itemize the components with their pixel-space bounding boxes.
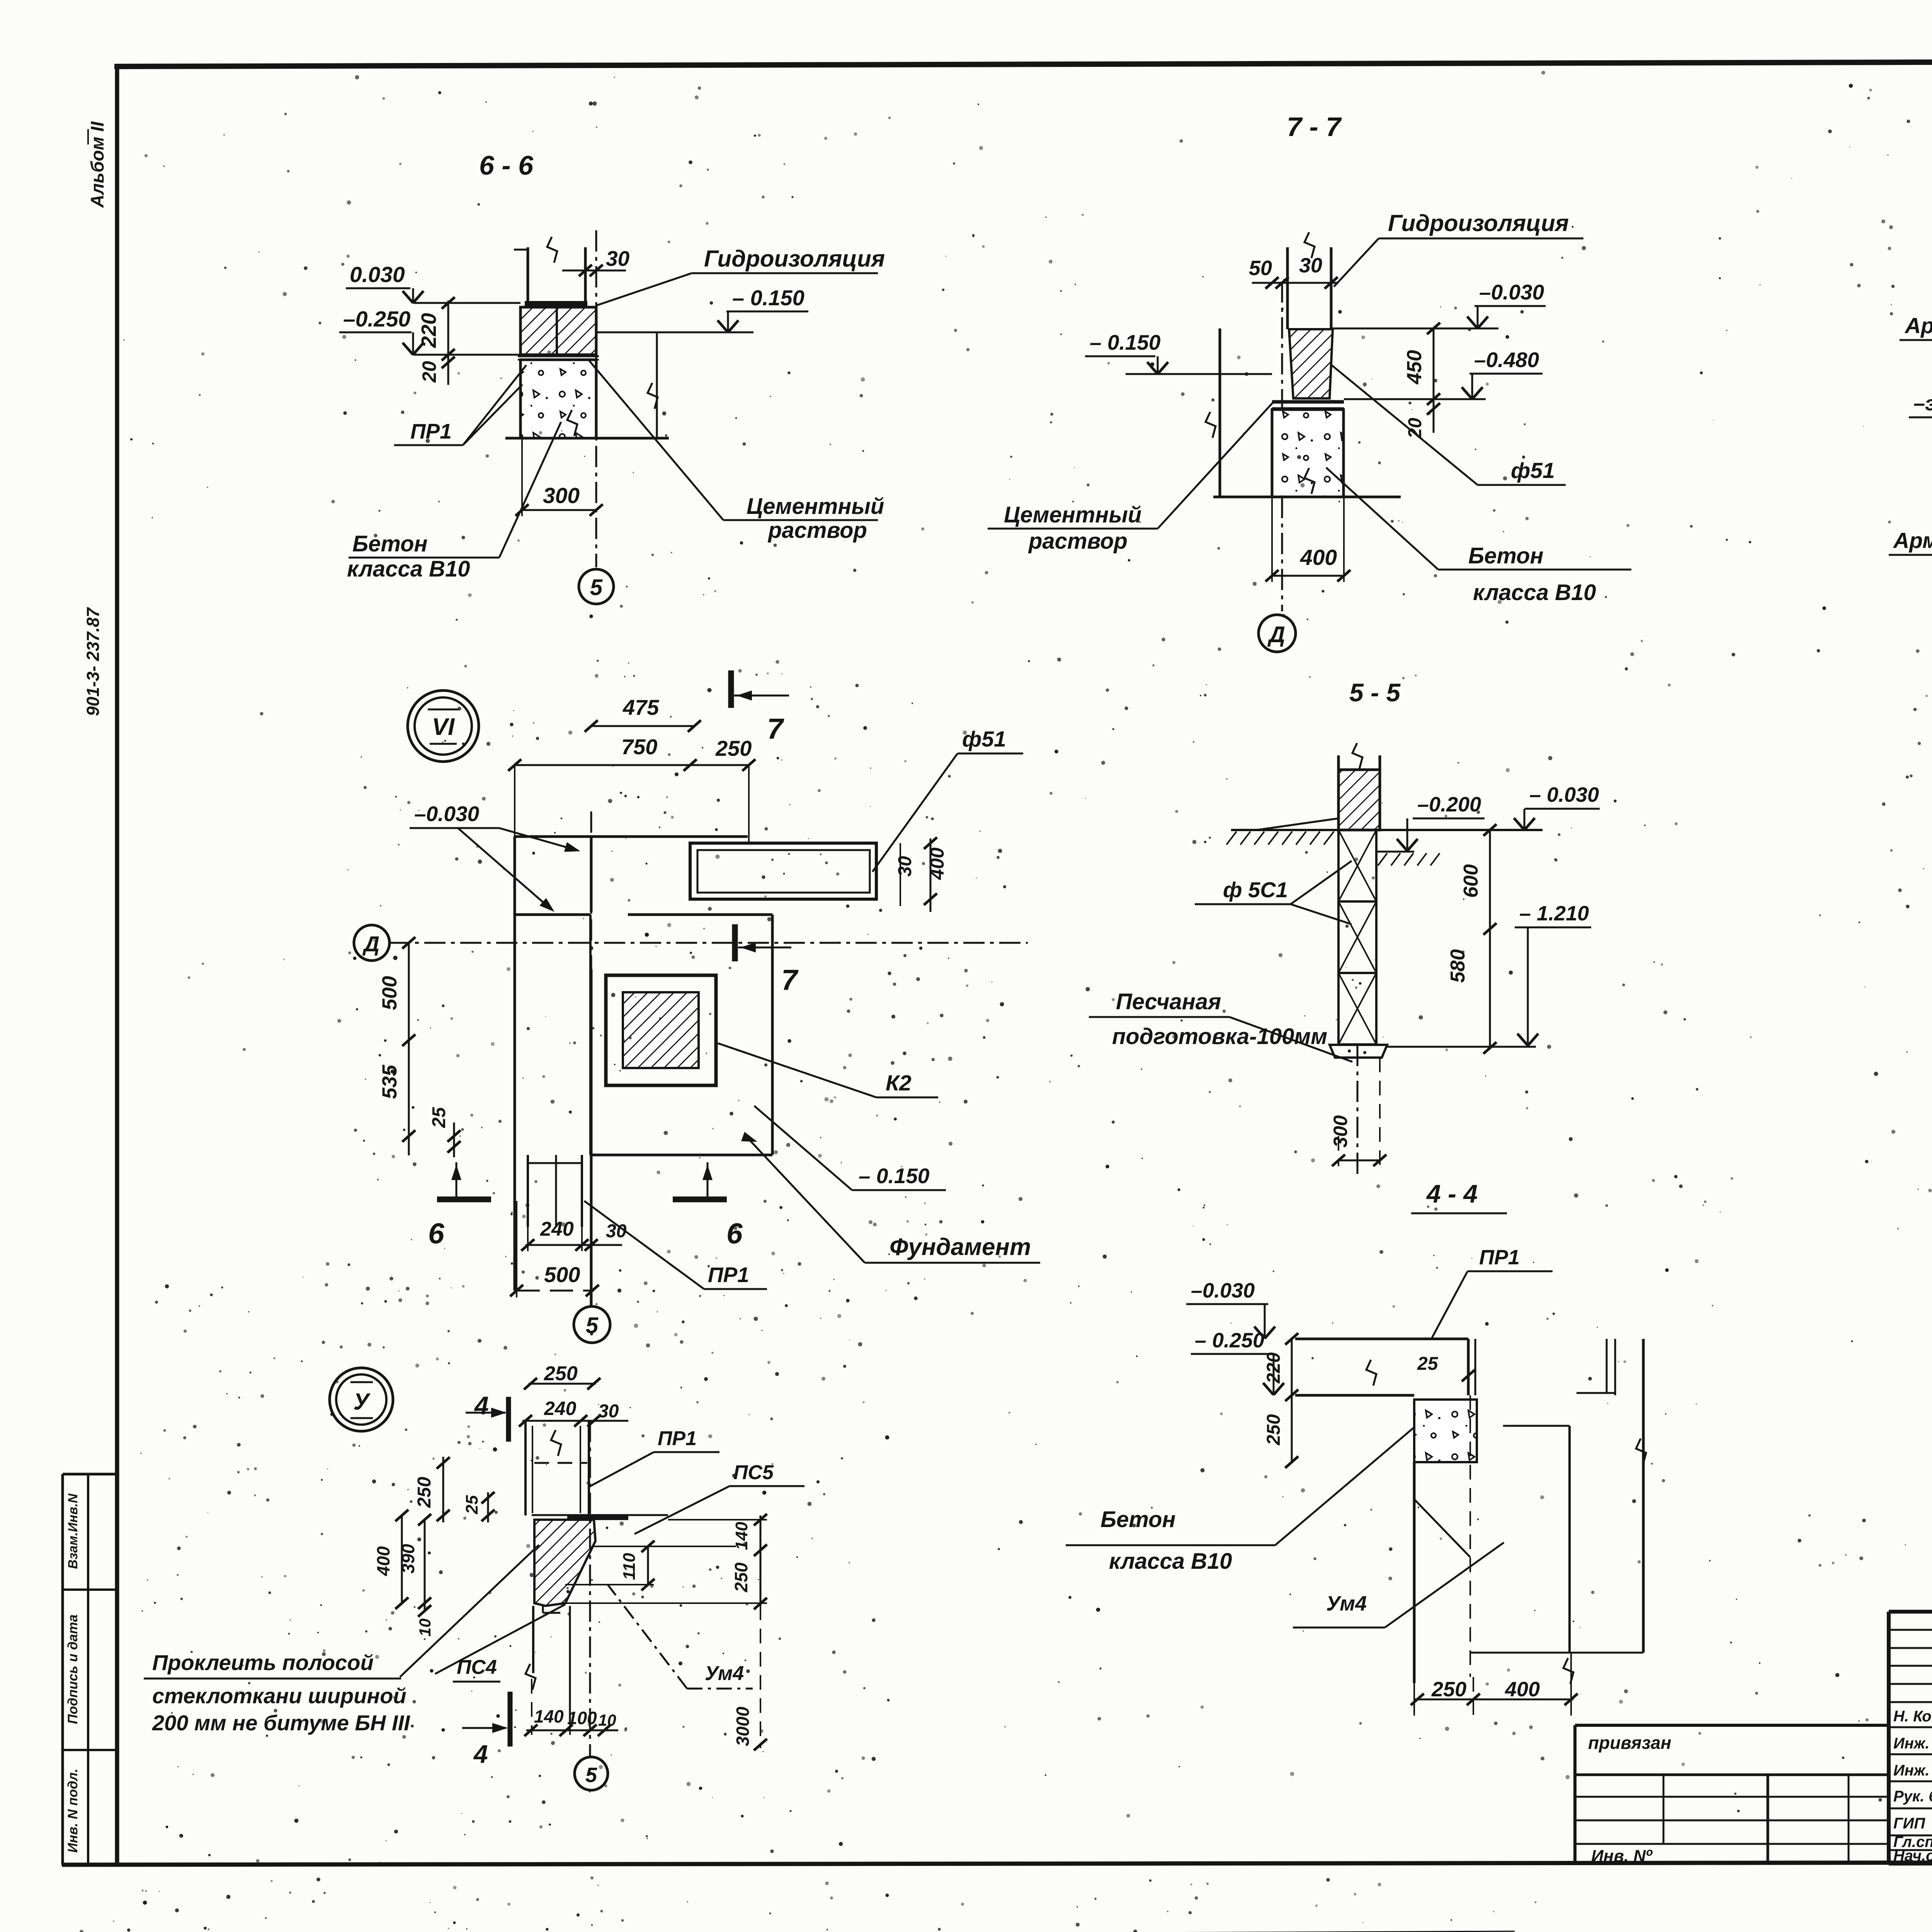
У dim 110 upper (565, 1541, 655, 1590)
6-6 label Гидроизоляция (597, 246, 885, 305)
5-5 ground line (1231, 818, 1543, 830)
4-4 lower wall (1414, 1395, 1573, 1684)
svg-text:475: 475 (622, 695, 659, 719)
У label ПС5 (634, 1461, 804, 1534)
svg-text:–0.200: –0.200 (1417, 793, 1481, 816)
svg-text:–0.250: –0.250 (343, 307, 411, 332)
6-6 concrete block (520, 360, 596, 438)
svg-text:раствор: раствор (767, 518, 867, 543)
7-7 mortar joint (1272, 402, 1344, 408)
svg-text:901-3- 237.87: 901-3- 237.87 (83, 607, 103, 716)
svg-text:300: 300 (1330, 1115, 1351, 1148)
svg-text:400: 400 (1300, 545, 1337, 570)
svg-text:400: 400 (1505, 1678, 1540, 1701)
svg-text:110: 110 (620, 1553, 639, 1580)
7-7 label ФБ1 (1331, 365, 1566, 485)
VI section mark 7 top (731, 670, 789, 745)
VI label Фундамент (747, 1137, 1040, 1263)
У section mark 4 bottom (462, 1692, 510, 1768)
svg-text:ф 5С1: ф 5С1 (1223, 878, 1288, 902)
svg-text:5 - 5: 5 - 5 (1349, 678, 1401, 707)
svg-text:класса В10: класса В10 (347, 556, 470, 582)
VI section mark 6 right (673, 1162, 743, 1250)
У dashed ПР1 line (534, 1462, 587, 1464)
У note Проклеить (144, 1650, 410, 1735)
6-6 level line -0.150 right (596, 332, 753, 438)
svg-text:250: 250 (1264, 1414, 1284, 1446)
svg-text:стеклоткани шириной: стеклоткани шириной (152, 1684, 406, 1708)
У dim 250 25 left (414, 1457, 534, 1522)
svg-text:ПР1: ПР1 (658, 1427, 697, 1450)
svg-text:–э.200: –э.200 (1913, 392, 1932, 415)
svg-text:50: 50 (1249, 257, 1272, 280)
VI label -0.150 (754, 1106, 946, 1190)
svg-text:4: 4 (473, 1740, 488, 1768)
svg-text:Альбом II: Альбом II (87, 121, 107, 208)
svg-text:Арматура колонны: Арматура колонны (1904, 313, 1932, 338)
svg-text:535: 535 (378, 1064, 401, 1099)
svg-text:250: 250 (414, 1477, 435, 1508)
У long ext lines (565, 1546, 767, 1603)
5-5 ledge -0.200 (1376, 830, 1414, 852)
svg-text:– 1.210: – 1.210 (1519, 902, 1589, 925)
svg-text:6: 6 (726, 1217, 743, 1250)
У axis bubble 5 bottom (575, 1757, 608, 1790)
svg-text:7: 7 (781, 964, 799, 996)
VI section mark 6 left (428, 1162, 491, 1250)
6-6 dim 220 / 20 (417, 297, 520, 385)
5-5 level -1.210 (1387, 902, 1591, 1047)
7-7 ground line (1213, 496, 1401, 498)
svg-text:6 - 6: 6 - 6 (479, 150, 534, 180)
svg-text:200 мм не битуме БН III: 200 мм не битуме БН III (152, 1711, 410, 1735)
svg-text:ПР1: ПР1 (1479, 1246, 1520, 1269)
VI axis 5 dash-dot vertical (590, 811, 592, 1305)
svg-text:Нач.отд.: Нач.отд. (1893, 1847, 1932, 1864)
7-7 level -0.480 (1344, 348, 1543, 399)
VI dim 750 250 (508, 735, 755, 843)
svg-text:25: 25 (1417, 1354, 1439, 1374)
svg-text:30: 30 (895, 856, 915, 877)
svg-text:4: 4 (474, 1391, 489, 1420)
svg-text:30: 30 (606, 247, 630, 270)
svg-text:3000: 3000 (733, 1706, 753, 1746)
VI label К2 (718, 1043, 938, 1097)
6-6 masonry block (520, 307, 596, 355)
svg-text:30: 30 (1299, 254, 1322, 277)
title block signature grid (1889, 1612, 1932, 1863)
7-7 dim 450 20 (1344, 323, 1440, 439)
svg-text:400: 400 (926, 847, 948, 880)
VI dim 240 30 (521, 1218, 627, 1251)
svg-text:Инв. N подл.: Инв. N подл. (65, 1769, 80, 1853)
У right dim 140 250 3000 (668, 1514, 767, 1750)
6-6 waterproofing band (525, 301, 587, 307)
5-5 wall column hatched (1338, 743, 1380, 830)
svg-text:Песчаная: Песчаная (1116, 989, 1221, 1014)
svg-text:7: 7 (767, 713, 784, 745)
margin text Альбом II (87, 121, 107, 208)
У dim 240 30 (519, 1398, 628, 1427)
svg-text:500: 500 (544, 1262, 580, 1287)
node У bubble (330, 1368, 393, 1431)
svg-text:Цементный: Цементный (747, 494, 884, 519)
svg-text:220: 220 (417, 313, 440, 348)
У label ПС4 (400, 1545, 565, 1682)
svg-text:Цементный: Цементный (1004, 502, 1141, 527)
svg-text:Д: Д (1267, 622, 1285, 647)
svg-text:– 0.150: – 0.150 (859, 1164, 930, 1188)
VI wall strip vertical (515, 837, 591, 1305)
У wall top (526, 1421, 589, 1515)
svg-text:ПР1: ПР1 (708, 1263, 749, 1287)
У label ПР1 (589, 1427, 719, 1487)
svg-text:240: 240 (540, 1218, 574, 1240)
svg-text:– 0.030: – 0.030 (1529, 783, 1599, 806)
svg-text:Бетон: Бетон (352, 531, 428, 556)
5-5 label ФБС1 (1195, 861, 1352, 924)
4-4 level -0.250 (1191, 1329, 1284, 1395)
svg-text:Арматура днища: Арматура днища (1893, 528, 1932, 553)
svg-text:ф51: ф51 (962, 727, 1006, 752)
5-5 footing pad (1330, 1045, 1387, 1058)
6-6 ground line (505, 437, 669, 440)
svg-text:Д: Д (362, 932, 379, 956)
4-4 label ПР1 (1432, 1246, 1553, 1338)
VI section mark 7 mid (735, 924, 799, 996)
VI column K2 outer (606, 975, 716, 1085)
svg-text:К2: К2 (886, 1071, 912, 1095)
svg-text:Инв. Nº: Инв. Nº (1591, 1847, 1653, 1866)
6-6 level mark 0.030 (346, 262, 520, 303)
5-5 dim 300 (1330, 1058, 1386, 1166)
svg-text:0.030: 0.030 (350, 262, 405, 287)
svg-text:VI: VI (432, 714, 455, 740)
svg-text:250: 250 (731, 1562, 751, 1592)
svg-text:450: 450 (1403, 350, 1426, 384)
VI dim 30 400 right (876, 837, 958, 925)
svg-text:7 - 7: 7 - 7 (1287, 112, 1342, 142)
VI dim 475 (585, 695, 701, 732)
VI channel ПР1 below (528, 1155, 582, 1227)
svg-text:Инж.: Инж. (1893, 1735, 1930, 1752)
6-6 level label -0.150 (718, 286, 808, 332)
У dim 140 100 10 bottom (524, 1679, 618, 1736)
svg-text:140: 140 (732, 1522, 751, 1550)
svg-text:Рук. бр.: Рук. бр. (1893, 1788, 1932, 1805)
8-8 level -3.200 (1909, 392, 1932, 451)
У dim 400 390 10 left (373, 1510, 534, 1636)
svg-text:– 0.150: – 0.150 (732, 286, 804, 310)
5-5 soil hatch (1226, 832, 1440, 866)
4-4 label Бетон класса В10 (1066, 1427, 1415, 1574)
7-7 wall above (1287, 232, 1331, 329)
svg-text:30: 30 (606, 1221, 627, 1242)
У notch (543, 1606, 560, 1613)
4-4 level -0.030 (1186, 1279, 1275, 1338)
svg-text:Гидроизоляция: Гидроизоляция (704, 246, 885, 272)
VI dim 500 535 25 left (378, 937, 515, 1157)
svg-text:5: 5 (585, 1764, 597, 1787)
svg-text:ГИП: ГИП (1893, 1815, 1925, 1832)
svg-text:140: 140 (534, 1706, 564, 1726)
svg-text:У: У (354, 1389, 371, 1415)
VI label ФБ1 (872, 727, 1023, 872)
svg-text:10: 10 (416, 1619, 434, 1637)
У dim 250 top (524, 1362, 600, 1389)
У slab ПС5 (532, 1515, 668, 1518)
svg-text:Бетон: Бетон (1468, 543, 1544, 568)
5-5 dim 600 580 (1380, 824, 1497, 1054)
title block roles (1893, 1708, 1932, 1864)
svg-text:–0.030: –0.030 (1191, 1279, 1255, 1302)
6-6 dim 30 (562, 247, 630, 276)
svg-text:–0.030: –0.030 (414, 802, 480, 826)
svg-text:– 0.250: – 0.250 (1195, 1329, 1264, 1352)
svg-text:750: 750 (621, 735, 657, 759)
svg-text:ПР1: ПР1 (410, 419, 452, 443)
VI top wall band (515, 837, 772, 915)
svg-text:4 - 4: 4 - 4 (1426, 1179, 1478, 1208)
VI foundation square (590, 915, 772, 1155)
5-5 level -0.030 (1514, 783, 1600, 830)
7-7 dim 50 30 (1249, 254, 1338, 289)
svg-text:Н. Контр.: Н. Контр. (1893, 1708, 1932, 1725)
7-7 axis bubble Д (1259, 615, 1296, 652)
VI axis bubble 5 bottom (574, 1306, 610, 1343)
scan smudge bottom (37, 1931, 1515, 1932)
7-7 axis line Д (1281, 281, 1283, 611)
svg-text:30: 30 (598, 1401, 619, 1422)
svg-text:300: 300 (543, 483, 580, 508)
5-5 level -0.200 (1397, 793, 1485, 851)
svg-text:5: 5 (590, 575, 603, 600)
VI block ФБ1 plan (690, 843, 876, 899)
VI dim 500 bottom (510, 1201, 599, 1298)
svg-text:Гидроизоляция: Гидроизоляция (1388, 210, 1569, 236)
У hatched wedge Ум4 (534, 1520, 595, 1606)
4-4 concrete block В10 (1414, 1400, 1477, 1462)
VI arrow into foundation (719, 1132, 759, 1147)
7-7 left wall face (1206, 328, 1220, 497)
4-4 dim 25 (1417, 1354, 1484, 1381)
6-6 axis bubble 5 (579, 569, 614, 604)
svg-text:– 0.150: – 0.150 (1090, 330, 1161, 354)
title block outer (1889, 1612, 1932, 1864)
svg-text:привязан: привязан (1588, 1733, 1671, 1753)
8-8 label Арматура днища (1889, 528, 1932, 555)
svg-text:класса В10: класса В10 (1109, 1549, 1232, 1574)
svg-text:220: 220 (1264, 1352, 1284, 1384)
6-6 axis line 5 (595, 230, 597, 567)
У section mark 4 top (466, 1391, 509, 1442)
5-5 foundation blocks ФБС (1338, 830, 1376, 1044)
6-6 level mark -0.250 (339, 307, 520, 355)
svg-text:250: 250 (715, 736, 752, 760)
7-7 level -0.150 (1085, 330, 1272, 374)
У label Ум4 (607, 1584, 753, 1689)
svg-text:25: 25 (463, 1495, 481, 1514)
5-5 axis dash-dot (1357, 1045, 1359, 1178)
7-7 label Бетон класса В10 (1326, 468, 1631, 605)
svg-text:ПС5: ПС5 (733, 1461, 774, 1484)
4-4 dim 220 250 left (1264, 1333, 1298, 1468)
6-6 label ПР1 (394, 365, 526, 445)
svg-text:раствор: раствор (1028, 529, 1128, 554)
svg-text:250: 250 (1431, 1678, 1466, 1701)
node VI bubble (408, 690, 479, 762)
VI level -0.030 label (410, 802, 582, 916)
svg-text:20: 20 (418, 361, 440, 383)
7-7 masonry block (1289, 329, 1333, 398)
6-6 dim 300 (515, 438, 603, 516)
7-7 label Гидроизоляция (1334, 210, 1583, 287)
7-7 label Цементный раствор (988, 403, 1273, 554)
svg-text:25: 25 (429, 1107, 449, 1128)
7-7 foundation block (1272, 410, 1344, 497)
svg-text:580: 580 (1447, 949, 1469, 983)
title block left extension (1575, 1725, 1889, 1863)
svg-text:Фундамент: Фундамент (889, 1234, 1031, 1260)
4-4 inner diagonal (1414, 1499, 1470, 1557)
svg-text:–0.030: –0.030 (1479, 280, 1544, 304)
svg-text:390: 390 (398, 1544, 418, 1573)
svg-text:400: 400 (373, 1546, 393, 1576)
svg-text:240: 240 (544, 1398, 577, 1419)
svg-text:ф51: ф51 (1511, 458, 1555, 483)
6-6 label Бетон класса В10 (347, 422, 561, 582)
svg-text:–0.480: –0.480 (1474, 348, 1539, 372)
svg-text:6: 6 (428, 1217, 445, 1250)
VI label ПР1 (584, 1201, 767, 1289)
svg-text:класса В10: класса В10 (1473, 580, 1596, 605)
svg-text:Ум4: Ум4 (1326, 1592, 1367, 1615)
svg-text:Подпись и дата: Подпись и дата (65, 1614, 80, 1724)
4-4 dim 250 400 bottom (1411, 1653, 1578, 1716)
6-6 mortar layer (518, 356, 599, 360)
section 4-4 title (1411, 1179, 1507, 1213)
7-7 dim 400 (1265, 497, 1350, 582)
svg-text:Бетон: Бетон (1100, 1507, 1176, 1532)
svg-text:Инж.: Инж. (1893, 1762, 1930, 1779)
margin stamp table (63, 1474, 117, 1865)
section 5-5 title (1349, 678, 1401, 707)
У lower wall (526, 1421, 590, 1756)
4-4 slab ПР1 (1295, 1339, 1475, 1395)
6-6 label Цементный раствор (588, 359, 884, 543)
svg-text:600: 600 (1460, 864, 1482, 898)
5-5 label Песчаная подготовка (1089, 989, 1352, 1062)
svg-text:Ум4: Ум4 (705, 1662, 744, 1685)
VI axis Д dash-dot (388, 942, 1028, 944)
svg-text:подготовка-100мм: подготовка-100мм (1112, 1024, 1327, 1049)
svg-text:Взам.Инв.N: Взам.Инв.N (66, 1493, 80, 1569)
svg-text:500: 500 (378, 976, 401, 1010)
VI axis bubble Д (354, 925, 389, 961)
4-4 right wall (1470, 1339, 1646, 1653)
svg-text:250: 250 (544, 1362, 578, 1385)
7-7 level -0.030 (1331, 280, 1546, 328)
6-6 wall above (514, 237, 585, 303)
8-8 label Арматура колонны (1900, 313, 1932, 340)
VI column K2 hatched (623, 992, 699, 1068)
4-4 label Ум4 (1293, 1543, 1504, 1628)
svg-text:Проклеить полосой: Проклеить полосой (152, 1650, 374, 1675)
